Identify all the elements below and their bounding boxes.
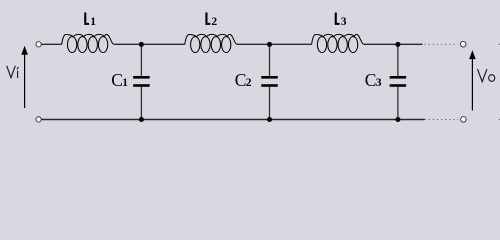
inductor L3	[312, 34, 364, 52]
Vi arrow	[21, 46, 28, 108]
capacitor C1	[133, 44, 150, 119]
wire top rail dashed continuation	[425, 43, 458, 45]
svg-text:2: 2	[246, 77, 252, 89]
svg-text:C: C	[365, 70, 377, 90]
node A junction dot top	[139, 42, 144, 47]
label L1	[84, 13, 96, 28]
label C1	[111, 70, 128, 90]
label Vo	[478, 69, 495, 82]
node C junction dot bottom	[395, 117, 400, 122]
svg-text:2: 2	[211, 16, 217, 28]
wire top rail: L3 to output	[364, 43, 423, 45]
label C2	[235, 70, 252, 90]
capacitor C3	[390, 44, 407, 119]
wire top rail: input terminal to L1	[41, 43, 61, 45]
inductor L1	[62, 34, 114, 52]
capacitor C2	[261, 44, 278, 119]
input terminal bottom	[36, 117, 41, 122]
output terminal bottom	[461, 117, 467, 123]
node A junction dot bottom	[139, 117, 144, 122]
label C3	[365, 70, 382, 90]
label Vi	[7, 66, 19, 78]
svg-text:C: C	[235, 70, 247, 90]
node C junction dot top	[395, 42, 400, 47]
output terminal top	[460, 41, 466, 47]
wire bottom rail dashed continuation	[425, 118, 458, 120]
edge dash marks right border bottom	[499, 118, 500, 120]
svg-text:1: 1	[122, 77, 128, 89]
svg-text:3: 3	[376, 77, 382, 89]
node B junction dot top	[267, 42, 272, 47]
input terminal top	[36, 42, 41, 47]
svg-text:1: 1	[90, 16, 96, 28]
label L2	[205, 13, 217, 28]
inductor L2	[185, 34, 237, 52]
Vo arrow	[469, 50, 476, 110]
wire top rail: L2 to L3 through node B	[237, 43, 312, 45]
label L3	[335, 13, 347, 28]
svg-text:C: C	[111, 70, 123, 90]
wire bottom rail	[41, 119, 424, 121]
node B junction dot bottom	[267, 117, 272, 122]
edge dash marks right border top	[499, 43, 500, 45]
svg-text:3: 3	[341, 16, 347, 28]
wire top rail: L1 to L2 through node A	[114, 43, 185, 45]
